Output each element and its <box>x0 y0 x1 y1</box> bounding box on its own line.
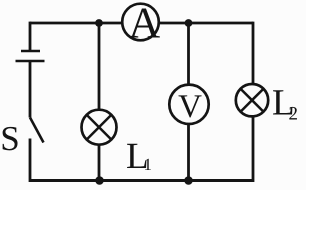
node junction bottom-left <box>95 176 104 185</box>
battery: short (negative) plate <box>21 50 40 53</box>
node junction top-right <box>185 19 193 27</box>
wire left vertical middle (battery to switch) <box>29 61 32 118</box>
switch S blade (open) <box>30 118 44 143</box>
lamp L2 circle <box>236 84 268 116</box>
battery: long (positive) plate <box>16 60 45 63</box>
wire left vertical lower (switch to bottom wire) <box>29 139 32 183</box>
voltmeter V circle <box>169 85 208 124</box>
wire left vertical upper (top wire to battery) <box>29 22 32 51</box>
svg-text:2: 2 <box>289 104 299 125</box>
svg-text:A: A <box>128 0 160 48</box>
lamp L1 circle <box>82 110 117 145</box>
svg-text:V: V <box>178 89 202 125</box>
wire branch L1 vertical <box>98 23 101 181</box>
wire bottom horizontal <box>30 179 253 182</box>
wire top horizontal <box>30 22 253 25</box>
lamp L2 cross stroke 1 <box>241 89 264 112</box>
wire right vertical (top wire to bottom wire through L2) <box>252 22 255 182</box>
svg-text:S: S <box>0 119 19 158</box>
svg-text:1: 1 <box>144 155 153 174</box>
wire branch voltmeter vertical <box>187 23 190 181</box>
ammeter A circle <box>122 4 159 41</box>
node junction bottom-right <box>184 176 193 185</box>
lamp L2 cross stroke 2 <box>241 89 264 112</box>
node junction top-left <box>95 19 103 27</box>
lamp L1 cross stroke 1 <box>87 115 112 140</box>
lamp L1 cross stroke 2 <box>87 115 112 140</box>
